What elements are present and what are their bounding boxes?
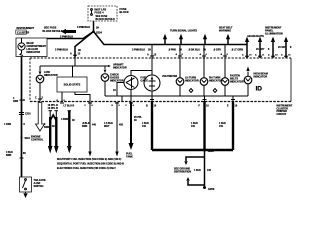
ground drop B16: [142, 96, 157, 150]
svg-text:INDICATOR: INDICATOR: [230, 81, 244, 84]
connector tick A13: [150, 55, 154, 57]
svg-text:.8 PNK: .8 PNK: [168, 49, 176, 52]
feed arrow A1 (turn signal): [163, 34, 167, 45]
svg-text:WHT: WHT: [104, 125, 110, 128]
svg-text:WARNING: WARNING: [219, 30, 231, 33]
thick arrow to fuel tank unit: [126, 102, 143, 159]
solid state module U1: [57, 66, 87, 92]
wire W4 down: [104, 102, 124, 157]
svg-text:S234: S234: [96, 32, 102, 35]
instrument cluster label: [16, 26, 35, 34]
ground G200: [203, 186, 215, 191]
svg-text:CONTROL: CONTROL: [31, 139, 44, 142]
bottom edge connector ticks: [57, 96, 135, 107]
label multiport fuel injection note: [57, 158, 124, 170]
wire G1 sender output: [130, 90, 132, 102]
svg-text:CLUSTER: CLUSTER: [17, 31, 29, 35]
svg-text:150: 150: [191, 125, 196, 128]
svg-text:150: 150: [207, 169, 212, 172]
svg-text:BRN: BRN: [82, 125, 87, 128]
svg-text:ORN: ORN: [13, 101, 18, 103]
splice S310: [20, 136, 22, 138]
svg-text:150: 150: [219, 125, 224, 128]
svg-text:ID: ID: [256, 86, 263, 93]
svg-text:DISTRIBUTION: DISTRIBUTION: [174, 171, 191, 174]
svg-text:MULTIPORT FUEL INJECTION (VIN: MULTIPORT FUEL INJECTION (VIN CODE E) AN…: [57, 158, 121, 161]
tailgate ajar switch SW1: [20, 177, 46, 192]
wire W3 down: [82, 102, 97, 157]
svg-text:BLOCK: BLOCK: [120, 10, 129, 14]
rear compartment lid indicator box: [16, 38, 47, 57]
connector tick: [20, 99, 24, 101]
svg-text:INSTRUMENT: INSTRUMENT: [17, 26, 35, 30]
instrument cluster dashed outline: [30, 58, 291, 102]
wire L2 bottom: [104, 81, 106, 96]
svg-text:S205: S205: [208, 150, 214, 153]
ground bus bottom: [152, 149, 233, 151]
lamp L2 check gages: [101, 66, 124, 83]
svg-text:SWITCH: SWITCH: [34, 185, 44, 188]
wire voltmeter to ground bus: [151, 91, 153, 96]
svg-text:INDICATOR: INDICATOR: [44, 74, 58, 77]
svg-text:LT BLU R: LT BLU R: [64, 105, 75, 108]
wire G1 top feed: [131, 71, 152, 76]
svg-text:BLOCK DETAILS: BLOCK DETAILS: [43, 30, 63, 33]
svg-text:VOLTMETER: VOLTMETER: [162, 75, 177, 78]
hollow arrow to engine control: [31, 103, 45, 142]
ground distribution reference arrow 2: [186, 177, 204, 185]
svg-text:.8 GRY: .8 GRY: [213, 49, 221, 52]
lamp L4 RH turn: [200, 45, 223, 86]
svg-text:1 ORN: 1 ORN: [4, 124, 11, 126]
svg-text:1 BLK: 1 BLK: [194, 169, 201, 172]
illumination connector ticks on cluster edge: [242, 54, 291, 57]
svg-text:20 GRY: 20 GRY: [278, 46, 287, 49]
svg-text:3 PNK/BLK: 3 PNK/BLK: [132, 49, 145, 52]
wire S205 to ground: [204, 150, 206, 186]
svg-text:A: A: [70, 53, 72, 56]
fuse block dashed box: [88, 6, 117, 21]
label rear compartment lid ajar indicator: [27, 42, 47, 54]
thick feed wire W2: [61, 111, 75, 154]
ground drop E16: [219, 96, 238, 150]
fuse F1 symbol: [91, 9, 93, 16]
svg-text:3 PNK/BLK: 3 PNK/BLK: [77, 26, 90, 29]
ground drop F16: [191, 96, 209, 150]
svg-text:2 PNK/BLK: 2 PNK/BLK: [55, 49, 68, 52]
svg-text:4 BRN: 4 BRN: [61, 118, 68, 121]
label SEE FUSE BLOCK DETAILS: [43, 26, 63, 33]
wire G1 left to ground bus: [117, 83, 124, 97]
svg-text:INDICATOR: INDICATOR: [254, 76, 268, 79]
svg-text:FUSE 4: FUSE 4: [95, 11, 105, 15]
svg-text:BRN: BRN: [44, 126, 49, 129]
twin feed wires W1 to fuel injection: [44, 111, 59, 154]
label 16 PPL wires: [48, 104, 75, 110]
lamp L6 high beam: [244, 67, 268, 84]
fuel gauge G1: [124, 76, 148, 90]
fuse block name label: [120, 7, 129, 14]
svg-text:CIRCUIT: CIRCUIT: [277, 113, 287, 116]
feed arrow headlights: [245, 35, 264, 58]
svg-text:150: 150: [142, 125, 147, 128]
splice S205: [203, 149, 205, 151]
svg-text:HEADLIGHTS: HEADLIGHTS: [248, 35, 265, 38]
voltmeter G2: [144, 75, 177, 91]
svg-text:SOLID STATE: SOLID STATE: [64, 83, 81, 87]
lamp L3 LH turn: [176, 45, 199, 86]
wire U1 right output: [75, 92, 90, 102]
svg-text:A: A: [147, 54, 149, 57]
svg-text:INDICATOR: INDICATOR: [113, 67, 127, 70]
wire bus to voltmeter: [151, 45, 153, 76]
svg-text:SEQUENTIAL PORT FUEL INJECTION: SEQUENTIAL PORT FUEL INJECTION (VIN CODE…: [57, 162, 124, 165]
svg-text:ELECTRONIC FUEL INJECTION (VIN: ELECTRONIC FUEL INJECTION (VIN CODE Z) O…: [57, 167, 116, 170]
svg-text:C210: C210: [25, 114, 31, 116]
wire L1 to edge: [39, 83, 41, 102]
lamp rear compartment: [18, 38, 25, 56]
ground distribution reference arrow 1: [174, 157, 205, 174]
fuse F1 value label: [95, 8, 116, 21]
connector A12 tick: [73, 54, 77, 56]
lamp filament dots: [21, 46, 249, 83]
wire splice down to cluster connector A12: [75, 32, 94, 59]
wire splice to main pnk/blk bus: [94, 32, 248, 45]
off page arrow below switch: [23, 192, 27, 198]
top edge connector labels for lamp drops: [176, 53, 229, 56]
feed arrow A3: [203, 34, 207, 45]
svg-text:16 PPL B: 16 PPL B: [48, 107, 59, 110]
svg-text:B: B: [146, 105, 148, 108]
svg-text:450: 450: [119, 124, 124, 127]
inline connector C210: [19, 113, 31, 116]
connector tick C2: [38, 98, 42, 100]
svg-text:.8 DK BLU: .8 DK BLU: [188, 49, 200, 52]
splice S234: [92, 30, 95, 33]
wire splice to rear compartment indicator: [47, 32, 94, 39]
internal feed wire from A12: [40, 58, 127, 70]
svg-text:BLOCK DETAILS: BLOCK DETAILS: [96, 18, 116, 21]
svg-text:ILLUMINATION: ILLUMINATION: [265, 33, 283, 36]
feed arrow A2 label TURN SIGNAL LIGHTS: [170, 30, 197, 45]
svg-text:INDICATOR: INDICATOR: [185, 80, 199, 83]
label instrument cluster printed circuit: [277, 105, 293, 116]
svg-text:20 GRY: 20 GRY: [256, 48, 265, 51]
lamp L1 (low fuel indicator): [36, 66, 58, 83]
svg-text:S310: S310: [25, 138, 31, 140]
connector tick 2: [20, 157, 24, 159]
off-page arrow to fuse block details: [61, 29, 76, 34]
svg-text:.8 LT GRN: .8 LT GRN: [231, 49, 243, 52]
lamp L5 fasten belts: [221, 45, 244, 86]
left tailgate wire from rear compartment lamp: [21, 57, 23, 178]
wire fuse to splice S234: [93, 21, 95, 32]
svg-text:C: C: [35, 97, 37, 100]
wire U1 left output: [61, 92, 63, 102]
feed arrows panel illumination: [256, 27, 292, 59]
svg-text:G200: G200: [208, 187, 215, 191]
svg-text:TANK: TANK: [126, 156, 133, 159]
svg-text:BRN: BRN: [6, 154, 11, 157]
svg-text:TURN SIGNAL LIGHTS: TURN SIGNAL LIGHTS: [170, 30, 197, 33]
feed arrow A4 label SEAT BELT WARNING: [219, 27, 233, 45]
svg-text:INDICATOR: INDICATOR: [27, 51, 41, 54]
splice diamond D1: [189, 89, 193, 93]
internal ground bus: [105, 95, 248, 97]
splice diamond D2: [213, 89, 217, 93]
svg-text:440: 440: [92, 124, 97, 127]
